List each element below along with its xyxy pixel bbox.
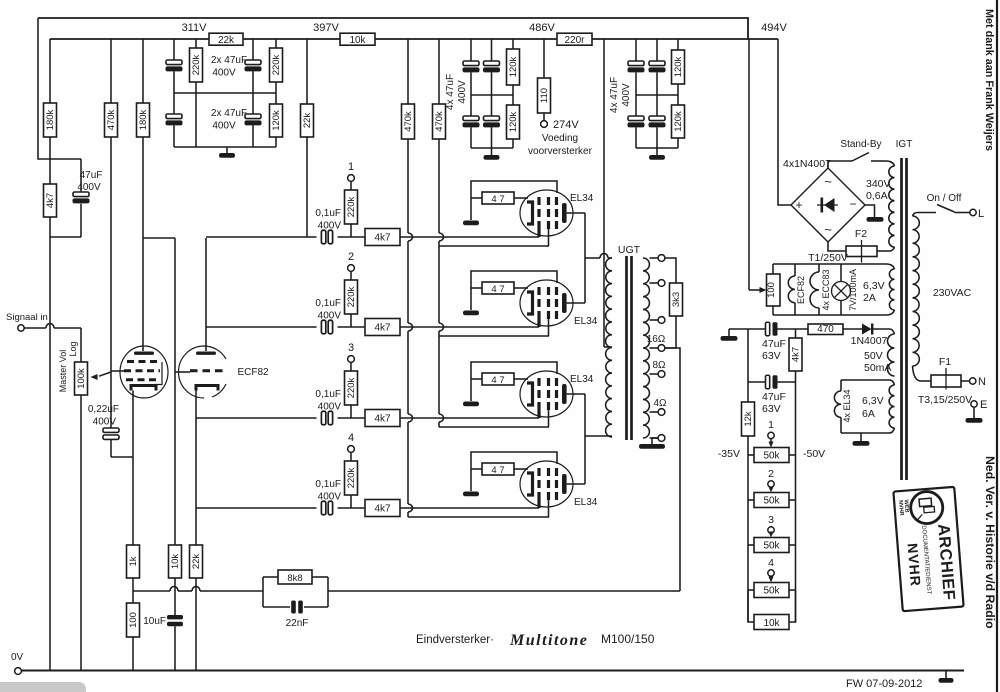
transformer IGT winding 340V	[889, 166, 895, 247]
resistor 120k (group2 top)	[512, 39, 514, 49]
wire HT rail 311V segment	[50, 38, 209, 40]
svg-text:6,3V: 6,3V	[863, 280, 885, 292]
diode bridge 4x1N4007	[791, 168, 865, 242]
terminal 0V	[15, 668, 22, 675]
resistor 120k (group3 top)	[677, 39, 679, 50]
wire bias pot arrow 3	[770, 533, 772, 535]
transformer IGT winding 230VAC	[913, 216, 920, 366]
wire stage 1 left	[206, 236, 317, 238]
svg-text:On / Off: On / Off	[927, 193, 962, 204]
svg-text:400V: 400V	[457, 80, 468, 104]
svg-text:-50V: -50V	[803, 448, 825, 460]
wire stage 1 mid	[338, 236, 366, 238]
svg-text:Voeding: Voeding	[542, 133, 578, 144]
svg-text:4k7: 4k7	[374, 414, 391, 425]
svg-text:120k: 120k	[508, 111, 519, 132]
svg-text:NVHR: NVHR	[905, 543, 924, 588]
terminal bias pot 4	[768, 570, 774, 576]
ground filter2	[491, 148, 493, 155]
capacitor 2x47uF pair B bottom	[252, 71, 254, 114]
svg-text:0,1uF: 0,1uF	[315, 298, 341, 309]
terminal E	[971, 401, 977, 407]
svg-text:4Ω: 4Ω	[653, 398, 667, 409]
capacitor 2x47uF pair A bottom	[173, 71, 175, 114]
wire coupling bus down	[174, 238, 176, 545]
svg-text:1k: 1k	[128, 556, 139, 566]
svg-text:1: 1	[348, 161, 354, 173]
wire triode grid stub	[175, 371, 190, 373]
transformer IGT winding 6,3V 2A	[889, 269, 894, 310]
svg-text:180k: 180k	[138, 109, 149, 130]
wire 120k down	[275, 137, 277, 147]
potentiometer 100k Master Vol	[75, 362, 88, 395]
resistor 8k8 (feedback)	[278, 570, 312, 584]
transformer UGT core	[625, 256, 628, 440]
svg-text:4 7: 4 7	[491, 465, 504, 476]
svg-text:7V/100mA: 7V/100mA	[848, 269, 858, 311]
wire stage 2 mid	[338, 326, 366, 328]
svg-text:400V: 400V	[77, 182, 101, 193]
capacitor 4x47uF A bottom	[470, 72, 472, 116]
terminal bias pot 2	[768, 481, 774, 487]
svg-text:M100/150: M100/150	[601, 632, 655, 646]
capacitor 0,1uF stage 2	[321, 320, 325, 334]
potentiometer 50k (bias 1)	[748, 454, 754, 456]
resistor 220k (drive 3)	[350, 362, 352, 371]
svg-text:120k: 120k	[673, 111, 684, 132]
wire heater feed arrow	[749, 289, 760, 291]
svg-text:180k: 180k	[45, 109, 56, 130]
svg-text:8Ω: 8Ω	[652, 360, 666, 371]
resistor 4k7 (input)	[44, 184, 57, 217]
wire stage 3 left	[196, 417, 317, 419]
svg-text:22k: 22k	[191, 554, 202, 570]
wire filter1 mid	[174, 92, 276, 94]
wire feedback loop left	[262, 577, 264, 607]
svg-text:3k3: 3k3	[671, 292, 682, 307]
wire heater box bottom	[773, 314, 886, 316]
svg-text:L: L	[978, 208, 984, 220]
node UGT secondary tap 2	[650, 282, 659, 284]
wire pot wiper arrow	[99, 372, 111, 376]
wire stage 4 mid	[338, 507, 366, 509]
node UGT secondary tap 1	[650, 257, 659, 259]
wire 47uF bottom to node	[50, 236, 81, 238]
svg-text:4: 4	[348, 432, 354, 444]
svg-text:N: N	[978, 376, 986, 388]
svg-text:4: 4	[768, 557, 774, 569]
svg-text:Log: Log	[68, 341, 78, 356]
wire 10k to 10uF	[174, 578, 176, 615]
resistor 100 (heater series)	[772, 264, 774, 274]
svg-text:~: ~	[824, 222, 832, 237]
svg-text:100: 100	[128, 612, 139, 628]
svg-text:2A: 2A	[863, 292, 876, 304]
svg-text:F1: F1	[939, 356, 951, 368]
svg-text:47uF: 47uF	[762, 391, 786, 403]
wire 470 to diode	[843, 328, 862, 330]
wire feedback right	[328, 590, 680, 592]
capacitor 4x47uF C top	[635, 39, 637, 61]
wire -35V rail	[747, 436, 749, 622]
resistor 180k R-in-top	[49, 39, 51, 103]
capacitor 4x47uF D top	[656, 39, 658, 61]
svg-text:397V: 397V	[313, 22, 339, 34]
svg-text:0,6A: 0,6A	[866, 190, 888, 202]
wire left rail drop	[38, 18, 50, 159]
wire cap to 470	[778, 328, 809, 330]
wire top border 494V feed	[38, 18, 748, 39]
resistor 1k (pentode cathode)	[127, 545, 140, 578]
svg-text:400V: 400V	[212, 121, 236, 132]
svg-text:10uF: 10uF	[143, 616, 166, 627]
svg-text:T1/250V: T1/250V	[808, 252, 848, 264]
svg-text:220k: 220k	[346, 377, 357, 398]
wire triode anode line	[205, 238, 207, 351]
transformer IGT winding 6,3V 6A	[889, 385, 894, 428]
wire filter1 bottom	[174, 146, 276, 148]
wire filter2 bottom	[471, 147, 513, 149]
svg-text:1N4007: 1N4007	[851, 335, 888, 347]
capacitor 0,1uF stage 3	[321, 411, 325, 425]
pentode EL34 V3	[463, 362, 585, 427]
wire 230VAC to F1	[921, 380, 931, 382]
wire anode upper to UGT	[585, 257, 600, 259]
svg-text:4x 47uF: 4x 47uF	[609, 77, 620, 113]
svg-text:230VAC: 230VAC	[933, 287, 972, 299]
svg-text:220k: 220k	[191, 54, 202, 75]
heater 4x ECC83	[818, 264, 820, 272]
svg-text:2: 2	[348, 251, 354, 263]
svg-text:6,3V: 6,3V	[862, 395, 884, 407]
wire B+ tap to UGT	[604, 346, 612, 348]
svg-text:63V: 63V	[762, 403, 781, 415]
svg-text:0,1uF: 0,1uF	[315, 208, 341, 219]
wire anode tee to coupling bus	[143, 237, 175, 239]
capacitor 47uF 63V lower	[748, 381, 766, 383]
wire bias pot arrow 4	[770, 576, 772, 580]
svg-text:EL34: EL34	[574, 497, 598, 508]
capacitor 4x47uF C bottom	[635, 72, 637, 116]
wire stage 2 left	[206, 326, 317, 328]
wire input node down	[49, 217, 51, 671]
resistor 220k (drive 1)	[350, 181, 352, 190]
wire feedback from 16ohm tap	[665, 348, 680, 591]
wire stage 4 left	[196, 507, 317, 509]
svg-text:470k: 470k	[434, 111, 445, 132]
ground bridge	[867, 217, 884, 222]
wire HT rail 494V segment	[592, 38, 778, 40]
wire standby left	[828, 161, 852, 168]
wire anode bus lower pair	[584, 394, 586, 484]
svg-text:FW 07-09-2012: FW 07-09-2012	[846, 678, 922, 690]
resistor 22k (rail)	[209, 33, 243, 45]
svg-text:4x EL34: 4x EL34	[842, 389, 852, 422]
svg-text:−: −	[849, 197, 856, 211]
svg-text:470k: 470k	[403, 111, 414, 132]
resistor 220k (bleeder A)	[195, 39, 197, 48]
wire anode bus upper pair	[584, 213, 586, 303]
wire 220k-120k join	[275, 82, 277, 104]
resistor 470 (bias)	[808, 324, 843, 335]
resistor 4k7 (stage 4)	[365, 500, 400, 517]
wire 10uF to 0V rail	[174, 626, 176, 671]
wire bias pot arrow 1	[770, 439, 772, 445]
wire 3k3 to 16ohm tap	[665, 316, 676, 348]
svg-text:E: E	[980, 399, 987, 411]
wire 120k join group2	[512, 85, 514, 105]
svg-text:470k: 470k	[106, 109, 117, 130]
wire bridge minus to ground	[865, 205, 875, 217]
node UGT secondary tap 7	[650, 437, 659, 439]
svg-text:47uF: 47uF	[80, 170, 103, 181]
transformer IGT winding 50V	[888, 334, 895, 376]
svg-text:ECF82: ECF82	[796, 276, 806, 304]
wire filter3 mid	[636, 94, 678, 96]
svg-text:+: +	[795, 198, 802, 212]
wire heater box top	[773, 263, 886, 265]
svg-text:2x 47uF: 2x 47uF	[211, 55, 247, 66]
svg-text:120k: 120k	[673, 56, 684, 77]
svg-text:Multitone: Multitone	[509, 632, 588, 649]
svg-text:EL34: EL34	[574, 316, 598, 327]
wire pentode cathode lead	[132, 391, 134, 546]
svg-text:WEB: WEB	[903, 499, 910, 512]
capacitor 4x47uF A top	[470, 39, 472, 61]
wire right page border	[996, 0, 998, 692]
ground filter3	[656, 148, 658, 155]
wire 22k load to stage1 wire	[306, 137, 308, 237]
pentode EL34 V2	[463, 271, 585, 336]
svg-text:0,22uF: 0,22uF	[88, 404, 119, 415]
wire anode lower to UGT	[585, 435, 612, 437]
terminal 274V	[541, 121, 548, 128]
wire bias ground to caps	[729, 328, 766, 330]
lamp 7V/100mA	[840, 264, 842, 282]
wire 22nF bottom branch	[263, 606, 290, 608]
node UGT secondary tap 3	[650, 319, 659, 321]
wire triode cathode line	[195, 391, 197, 546]
resistor 470k (pentode grid)	[110, 39, 112, 103]
capacitor 22nF (feedback)	[291, 601, 296, 614]
svg-text:274V: 274V	[553, 119, 579, 131]
resistor 220k (drive 2)	[350, 271, 352, 280]
wire pentode grid lead	[111, 370, 124, 372]
capacitor 47uF 63V upper	[766, 322, 770, 336]
diode 1N4007 (bias)	[862, 324, 872, 335]
svg-text:4 7: 4 7	[491, 194, 504, 205]
wire standby right	[871, 160, 886, 162]
svg-text:220k: 220k	[346, 286, 357, 307]
wire 494V drop	[778, 39, 791, 205]
svg-text:4k7: 4k7	[374, 504, 391, 515]
resistor 10k (rail)	[340, 33, 375, 45]
svg-text:50k: 50k	[763, 586, 780, 597]
svg-text:400V: 400V	[212, 68, 236, 79]
svg-text:63V: 63V	[762, 350, 781, 362]
resistor 22k (triode anode load)	[306, 39, 308, 104]
heater 4x EL34 6,3V 6A	[834, 380, 889, 433]
svg-text:10k: 10k	[349, 35, 366, 46]
svg-text:6A: 6A	[862, 408, 875, 420]
heater ECF82	[794, 264, 796, 276]
resistor 4k7 (stage 2)	[365, 319, 400, 336]
wire to On/Off	[918, 212, 936, 214]
tube ECF82 triode section	[179, 346, 227, 398]
wire bridge bottom to fuse	[828, 242, 846, 251]
switch On/Off	[937, 205, 955, 213]
wire feedback left	[133, 590, 170, 592]
wire screen feed block1	[439, 245, 549, 247]
wire stage 3 mid	[338, 417, 366, 419]
wire feedback loop right	[327, 577, 329, 607]
svg-text:22nF: 22nF	[286, 618, 309, 629]
capacitor 2x47uF pair B top	[252, 39, 254, 60]
wire screen rail B down	[438, 139, 440, 233]
svg-text:470: 470	[817, 324, 834, 335]
resistor 4k7 (stage 3)	[365, 410, 400, 427]
resistor 470k (screen rail B)	[438, 39, 440, 104]
svg-text:EL34: EL34	[570, 374, 594, 385]
terminal N	[970, 378, 976, 384]
wire F1 to N	[961, 380, 969, 382]
wire pentode anode line	[142, 137, 144, 351]
capacitor 0,1uF stage 4	[321, 501, 325, 515]
svg-text:120k: 120k	[271, 110, 282, 131]
wire 1k to 100	[132, 578, 134, 603]
svg-text:4k7: 4k7	[45, 193, 56, 208]
svg-text:50k: 50k	[763, 451, 780, 462]
wire pot bottom to 0V	[80, 395, 82, 671]
wire switch to L	[955, 212, 970, 214]
resistor 220r (rail)	[557, 33, 592, 45]
resistor 10k (bias chain)	[748, 590, 754, 622]
svg-text:4x ECC83: 4x ECC83	[821, 269, 831, 310]
svg-text:4x 47uF: 4x 47uF	[445, 74, 456, 110]
svg-text:Signaal in: Signaal in	[6, 312, 48, 323]
wire screen rail B to block3	[439, 426, 549, 428]
svg-text:220k: 220k	[271, 54, 282, 75]
wire HT rail 486V segment	[375, 38, 557, 40]
svg-text:Stand-By: Stand-By	[840, 139, 881, 150]
resistor 220k (bleeder B)	[275, 39, 277, 48]
wire screen rail A to block4	[408, 516, 549, 518]
wire 110 to terminal	[543, 113, 545, 121]
svg-text:16Ω: 16Ω	[647, 334, 666, 345]
wire 470k to grid node	[110, 137, 112, 372]
pentode EL34 V1	[463, 181, 585, 246]
svg-text:10k: 10k	[170, 554, 181, 570]
svg-text:120k: 120k	[508, 56, 519, 77]
wire 0V rail	[21, 670, 964, 672]
wire stage 3 right	[400, 417, 539, 419]
potentiometer 50k (bias 4)	[748, 589, 754, 591]
resistor 100 (cathode)	[127, 603, 140, 637]
svg-text:400V: 400V	[93, 417, 117, 428]
svg-text:220k: 220k	[346, 467, 357, 488]
svg-text:50k: 50k	[763, 541, 780, 552]
resistor 4k7 (stage 1)	[365, 229, 400, 246]
terminal bias pot 1	[768, 432, 774, 438]
wire B+ feed to UGT	[603, 39, 605, 347]
svg-text:3: 3	[348, 342, 354, 354]
pentode EL34 V4	[463, 452, 585, 517]
svg-text:0,1uF: 0,1uF	[315, 389, 341, 400]
resistor 180k (pentode anode)	[142, 39, 144, 103]
wire 4k7 to -50V rail	[795, 371, 797, 622]
svg-text:F2: F2	[855, 228, 867, 240]
wire 340V bottom	[890, 247, 895, 251]
svg-text:Met dank aan Frank Weijers: Met dank aan Frank Weijers	[983, 9, 995, 151]
ground bottom right	[945, 671, 947, 679]
svg-text:4k7: 4k7	[374, 323, 391, 334]
svg-text:IGT: IGT	[896, 139, 913, 150]
wire HT rail 397V segment	[243, 38, 340, 40]
svg-text:0,1uF: 0,1uF	[315, 479, 341, 490]
svg-text:UGT: UGT	[618, 244, 641, 256]
ground earth	[973, 407, 975, 418]
terminal bias pot 3	[768, 527, 774, 533]
wire stage 4 right	[400, 507, 539, 509]
wire 0,22uF corner joins cathode line	[132, 456, 134, 458]
svg-text:2x 47uF: 2x 47uF	[211, 108, 247, 119]
svg-text:50mA: 50mA	[864, 362, 891, 374]
svg-text:Master Vol: Master Vol	[58, 350, 68, 393]
capacitor 4x47uF B bottom	[491, 72, 493, 116]
svg-text:486V: 486V	[529, 22, 555, 34]
svg-text:2: 2	[768, 468, 774, 480]
ground bias	[728, 329, 730, 336]
svg-text:3: 3	[768, 514, 774, 526]
wire signal input	[24, 327, 46, 329]
resistor 220k (drive 4)	[350, 452, 352, 461]
svg-text:100k: 100k	[76, 368, 87, 389]
resistor 3k3 (zobel)	[670, 283, 683, 316]
potentiometer 50k (bias 2)	[748, 499, 754, 501]
svg-text:100: 100	[766, 282, 777, 298]
switch Stand-By	[852, 153, 869, 162]
wire filter2 mid	[471, 94, 513, 96]
ground heater 6,3V	[860, 433, 862, 441]
node UGT secondary tap 5	[650, 373, 659, 375]
ground filter1	[226, 147, 228, 153]
wire screen rail A down	[407, 139, 409, 233]
resistor 10k (coupling bus)	[169, 545, 182, 578]
terminal signal input	[18, 325, 24, 331]
wire 22k to 0V rail	[195, 578, 197, 671]
wire 12k top	[747, 329, 749, 402]
terminal L	[970, 209, 976, 215]
ground UGT secondary	[652, 437, 658, 439]
wire 180k to 4k7	[49, 137, 51, 184]
wire heater feed drop	[748, 39, 750, 290]
svg-text:voorversterker: voorversterker	[528, 146, 593, 157]
svg-text:220k: 220k	[346, 196, 357, 217]
wire fuse to 340V winding	[877, 250, 890, 252]
svg-text:0V: 0V	[11, 652, 24, 663]
svg-text:4k7: 4k7	[791, 347, 802, 362]
svg-text:T3,15/250V: T3,15/250V	[918, 394, 972, 406]
resistor 120k (group2 bottom)	[507, 105, 520, 139]
svg-text:Eindversterker·: Eindversterker·	[416, 634, 494, 646]
svg-text:340V: 340V	[866, 178, 891, 190]
svg-text:EL34: EL34	[570, 193, 594, 204]
resistor 12k (bias divider)	[742, 402, 755, 436]
capacitor 47uF 400V	[50, 158, 81, 160]
svg-text:22k: 22k	[302, 113, 313, 129]
wire 8k8 top branch	[263, 576, 278, 578]
capacitor 2x47uF pair A top	[173, 39, 175, 60]
